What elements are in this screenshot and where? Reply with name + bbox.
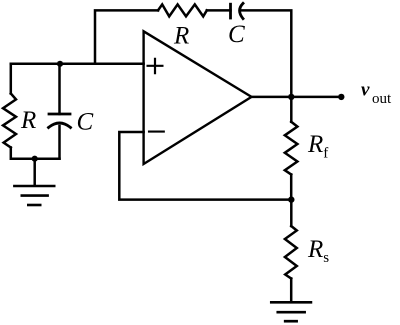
op-amp + input symbol [148, 59, 163, 73]
wire: rail up to series branch [95, 10, 158, 63]
wire: inverting input feedback run [119, 132, 291, 200]
wire: Rs bottom to ground [290, 279, 293, 302]
svg-text:R: R [20, 107, 36, 134]
wire: rail drop to capacitor C (left) [58, 64, 61, 114]
node: rail / C junction dot [57, 61, 63, 67]
svg-text:Rs: Rs [307, 236, 329, 266]
svg-text:v: v [361, 80, 370, 101]
wire: capacitor C bottom to lower rail [58, 126, 61, 159]
resistor R (left, vertical) [3, 94, 16, 148]
ground (left) bar 2 [22, 194, 48, 197]
svg-text:C: C [77, 109, 94, 136]
svg-text:R: R [173, 23, 189, 50]
ground (left) bar 1 [14, 185, 54, 188]
node: lower rail / ground junction dot [32, 156, 38, 162]
resistor Rs (vertical) [285, 226, 297, 279]
wire: ground stub (left) [33, 159, 36, 186]
wire: R to capacitor C (top) [207, 9, 231, 12]
wire: + input horizontal rail [11, 63, 144, 66]
resistor R (top, horizontal) [158, 4, 207, 16]
ground (right) bar 2 [278, 311, 305, 314]
svg-text:C: C [228, 21, 245, 48]
ground (right) bar 3 [285, 320, 296, 323]
wire: output node down to Rf [290, 97, 293, 122]
resistor Rf (vertical) [285, 122, 298, 175]
wire: capacitor C to right corner, down to output node [241, 10, 292, 97]
ground (left) bar 3 [28, 204, 40, 207]
capacitor C (left) curved plate [49, 123, 71, 128]
capacitor C (top) curved plate [240, 3, 243, 18]
wire: left drop from rail to R [10, 64, 13, 94]
wire: node down to Rs [290, 200, 293, 226]
wire: Rf bottom to node [290, 175, 293, 200]
ground (right) bar 1 [271, 301, 311, 304]
op-amp U1 triangle [144, 31, 252, 164]
op-amp - input symbol [149, 131, 164, 133]
wire: R bottom to lower rail [11, 148, 60, 159]
svg-text:out: out [372, 91, 392, 107]
wire: op-amp output to terminal [252, 96, 342, 99]
node: vout terminal dot [338, 94, 344, 100]
capacitor C (top) flat plate [229, 4, 232, 18]
svg-text:Rf: Rf [307, 131, 328, 162]
node: output junction dot [288, 94, 294, 100]
capacitor C (left) top plate [49, 113, 70, 116]
node: Rf/Rs junction dot [288, 196, 294, 202]
